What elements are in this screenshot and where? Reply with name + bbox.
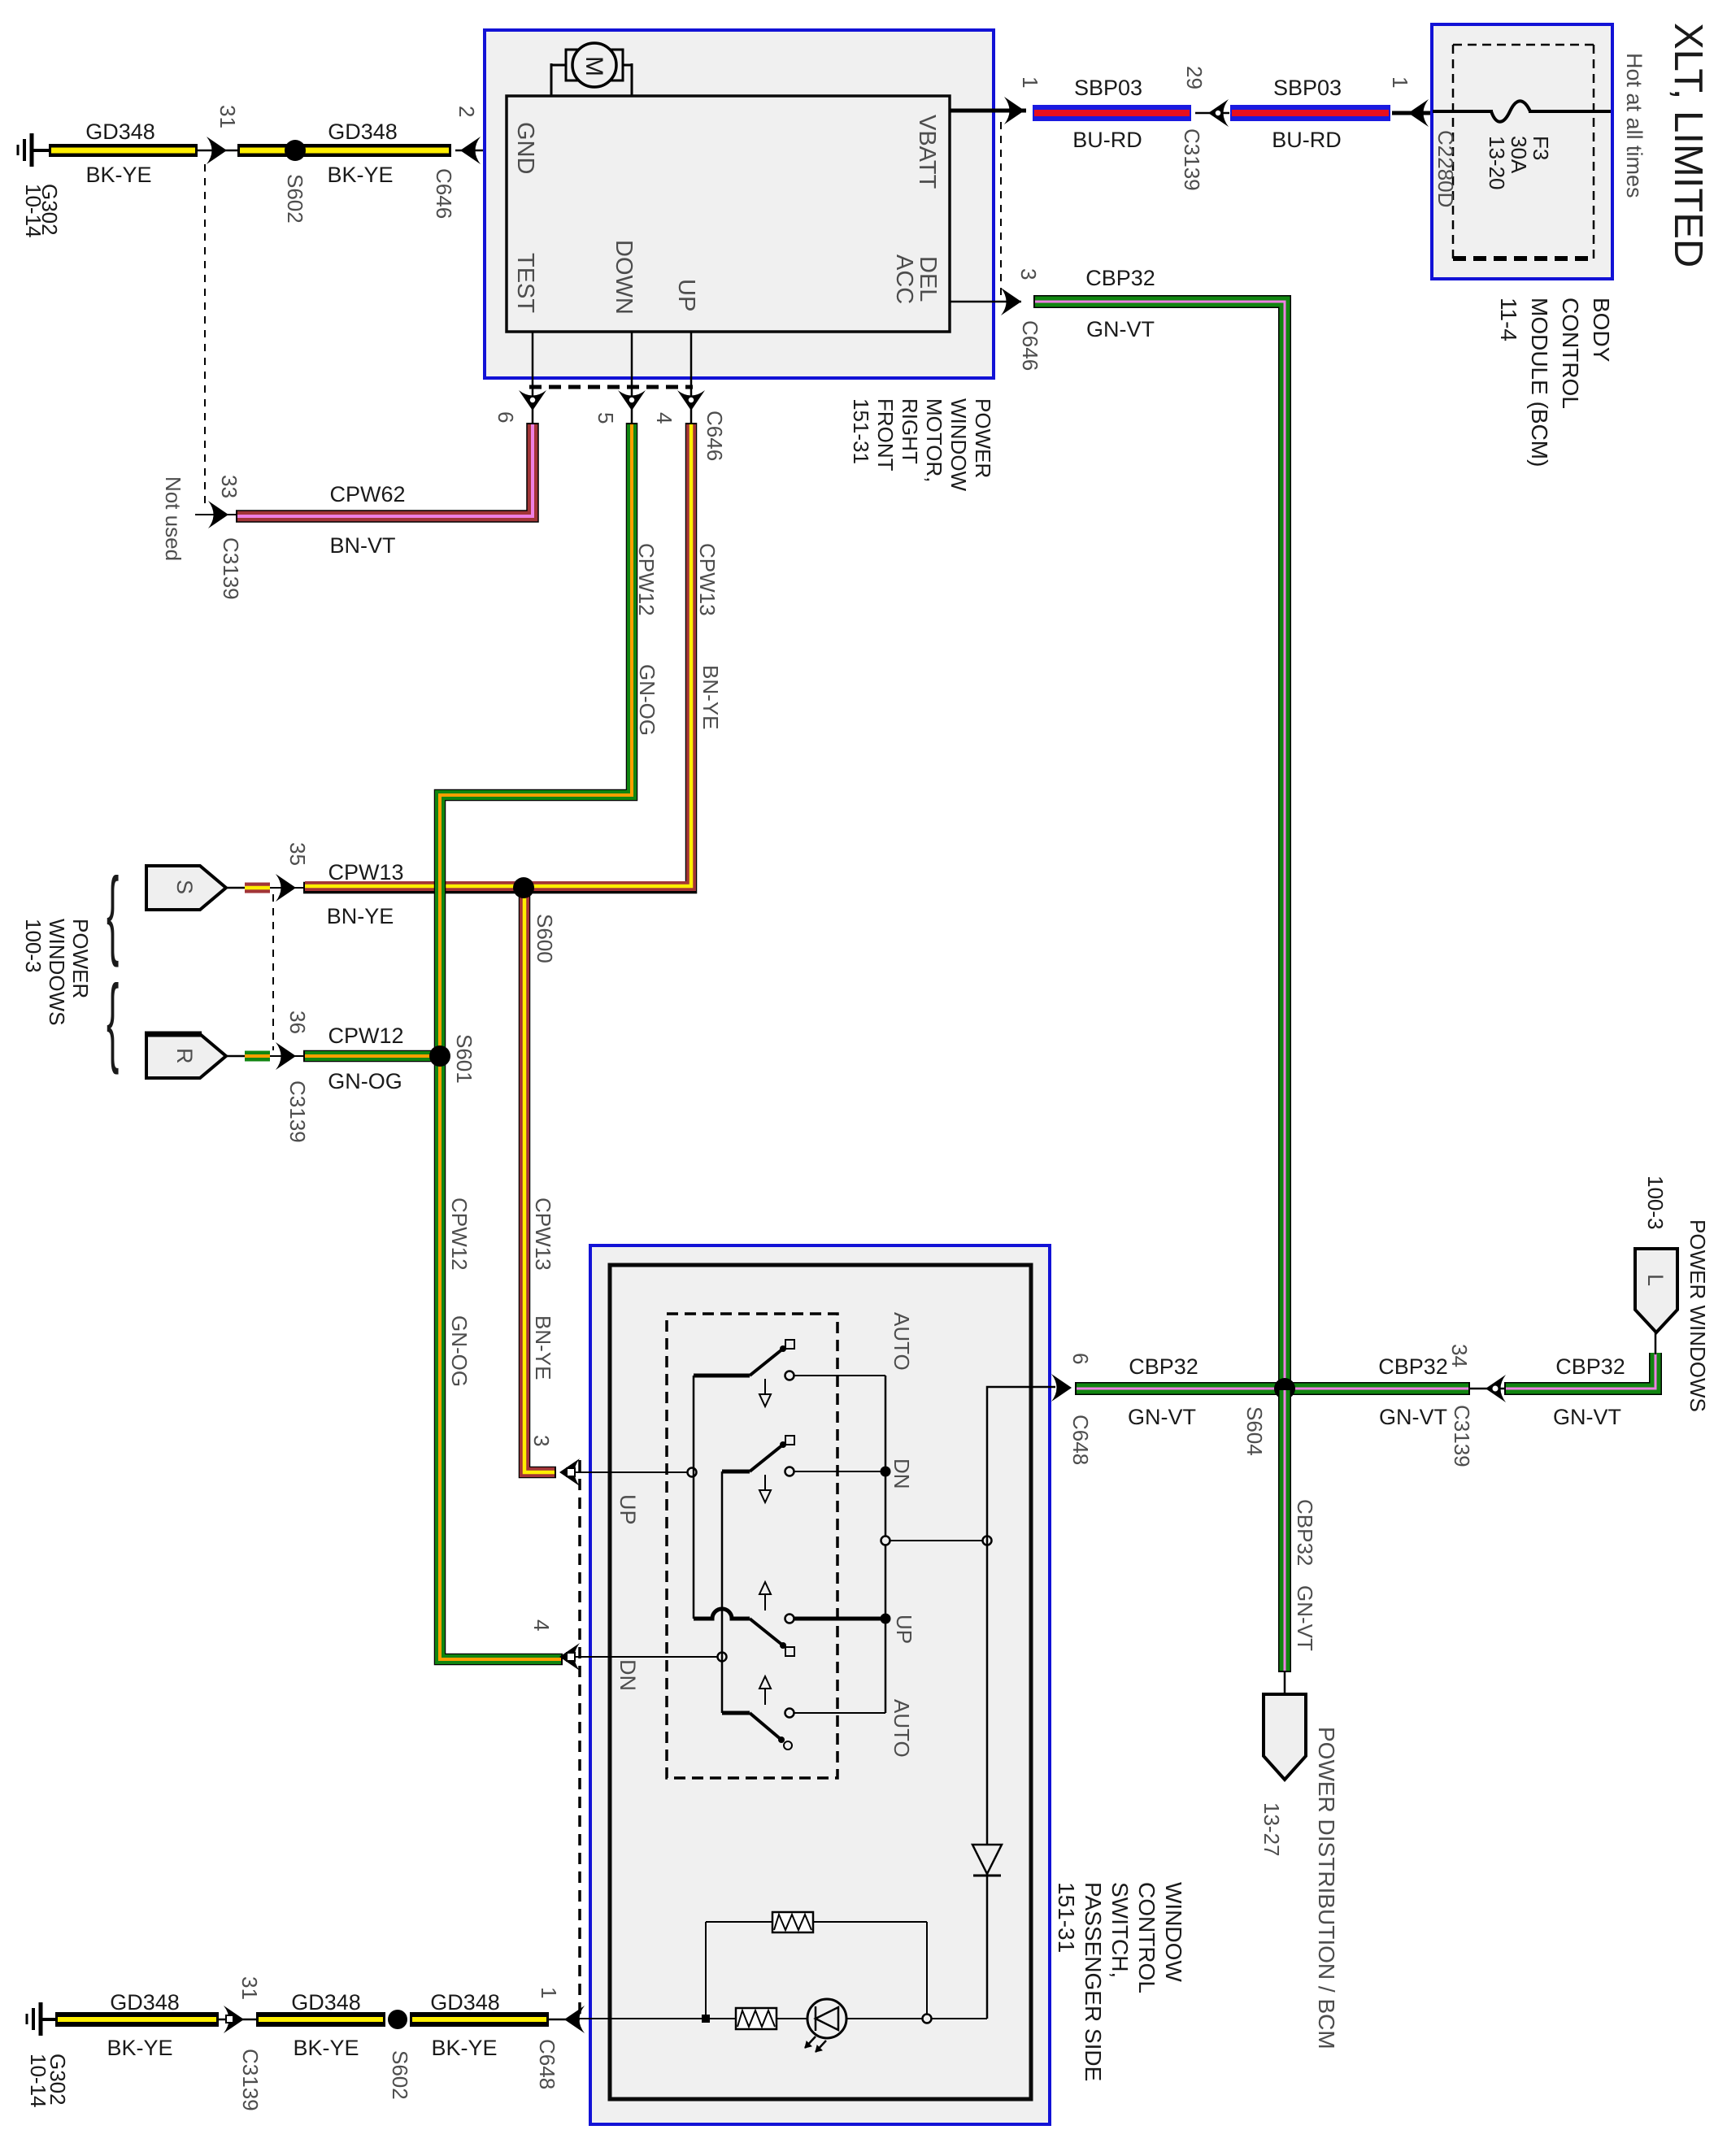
svg-text:MODULE (BCM): MODULE (BCM): [1527, 298, 1552, 467]
connector arrow pin 1 C648: [549, 2006, 585, 2033]
svg-text:MOTOR,: MOTOR,: [922, 398, 946, 483]
lead to power distribution connector: [1284, 1672, 1286, 1696]
label POWER WINDOWS 100-3 (right): [1643, 1176, 1710, 1412]
svg-text:S602: S602: [388, 2050, 412, 2100]
motor M1 symbol: [572, 43, 616, 87]
splice S602 (bottom): [388, 2010, 407, 2029]
svg-text:SBP03: SBP03: [1273, 76, 1342, 100]
svg-text:GN-OG: GN-OG: [328, 1069, 402, 1093]
svg-text:S604: S604: [1242, 1406, 1267, 1456]
svg-text:C3139: C3139: [1180, 128, 1204, 191]
svg-text:GND: GND: [512, 122, 538, 174]
svg-text:C3139: C3139: [1450, 1405, 1474, 1467]
svg-text:10-14: 10-14: [26, 2054, 50, 2108]
svg-text:F3: F3: [1529, 136, 1553, 160]
svg-text:1: 1: [537, 1987, 561, 1998]
switch SW3 UP: [694, 1582, 885, 1656]
svg-text:C646: C646: [1018, 320, 1042, 371]
svg-text:13-20: 13-20: [1485, 136, 1509, 190]
svg-text:BN-YE: BN-YE: [698, 665, 723, 729]
svg-text:CBP32: CBP32: [1085, 266, 1155, 290]
svg-text:WINDOW: WINDOW: [1161, 1882, 1186, 1982]
label BODY CONTROL MODULE (BCM) 11-4: [1496, 298, 1614, 467]
wire mid bus to pin 6 riser: [890, 1540, 983, 1541]
svg-text:SBP03: SBP03: [1074, 76, 1142, 100]
svg-text:{: {: [107, 964, 119, 1075]
switch inner box: [610, 1265, 1031, 2099]
svg-text:CPW13: CPW13: [531, 1198, 555, 1271]
ground G302 (top left): [18, 133, 50, 167]
svg-text:GN-OG: GN-OG: [447, 1315, 472, 1387]
svg-text:33: 33: [217, 475, 241, 498]
svg-text:Hot at all times: Hot at all times: [1622, 53, 1647, 198]
svg-text:1: 1: [1018, 76, 1042, 88]
svg-text:CBP32: CBP32: [1378, 1354, 1448, 1379]
svg-text:11-4: 11-4: [1496, 298, 1521, 341]
ground G302 (bottom left): [27, 2002, 57, 2036]
dashed connector line C646 (right side): [1000, 122, 1002, 302]
svg-text:BN-YE: BN-YE: [327, 904, 394, 928]
off-page connector S: [146, 866, 226, 910]
svg-text:3: 3: [529, 1435, 554, 1446]
svg-text:BK-YE: BK-YE: [293, 2036, 359, 2060]
switch assembly dashed box: [667, 1314, 837, 1778]
svg-text:DN: DN: [890, 1458, 914, 1489]
svg-text:GD348: GD348: [85, 120, 155, 144]
connector arrow pin 31 C3139 (top): [198, 137, 237, 164]
svg-text:10-14: 10-14: [21, 184, 46, 238]
svg-text:31: 31: [215, 105, 240, 128]
label POWER WINDOWS 100-3 (left): [21, 919, 93, 1025]
svg-text:S602: S602: [283, 174, 307, 224]
svg-text:34: 34: [1447, 1344, 1472, 1367]
junction circle on UP bus: [688, 1468, 697, 1477]
dashed connector line (switch left side): [578, 1460, 581, 2019]
svg-text:AUTO: AUTO: [890, 1312, 914, 1371]
wire pin 4 to switch common bus: [575, 1656, 720, 1658]
svg-text:GN-VT: GN-VT: [1293, 1585, 1317, 1651]
switch SW1 AUTO (up): [694, 1340, 885, 1406]
pin lead UP (4): [690, 332, 693, 423]
wire stub BN-YE at S: [245, 883, 270, 893]
svg-text:C3139: C3139: [238, 2049, 263, 2111]
svg-text:CPW13: CPW13: [695, 543, 720, 616]
connector arrow pin 31 C3139 (bottom): [219, 2006, 256, 2033]
connector arrow pin 4 C648 (DN): [559, 1643, 580, 1671]
bus DN common (switch 2 to switch 4): [721, 1471, 724, 1713]
wire GD348 BK-YE segment 1 (bottom): [55, 2012, 219, 2027]
junction dot DN contact: [881, 1467, 891, 1477]
wire lamp branch (pin 1 line): [575, 2018, 987, 2019]
svg-text:6: 6: [1068, 1353, 1093, 1364]
svg-text:100-3: 100-3: [21, 919, 46, 973]
svg-text:POWER: POWER: [971, 398, 995, 478]
connector arrow pin 3 C648 (UP): [559, 1458, 580, 1486]
svg-text:S600: S600: [533, 914, 557, 963]
power window motor right front: outer box: [485, 30, 994, 378]
lead from R: [226, 1055, 246, 1058]
splice S604: [1274, 1378, 1295, 1399]
svg-text:UP: UP: [616, 1494, 640, 1525]
svg-text:CONTROL: CONTROL: [1558, 298, 1583, 409]
junction dot UP contact: [881, 1614, 891, 1624]
wire GD348 BK-YE segment 3 (bottom): [410, 2012, 549, 2027]
splice S600: [513, 877, 534, 898]
svg-text:4: 4: [529, 1619, 554, 1631]
wire hot feed into fuse F3: [1433, 110, 1493, 113]
pin lead DOWN (5): [631, 332, 633, 423]
connector arrow pin 35 C3139: [270, 874, 303, 902]
lead from S: [226, 887, 246, 889]
wire CPW12 GN-OG (R branch to S601): [303, 1050, 443, 1063]
dashed connector line C646 (below motor box): [529, 385, 693, 389]
svg-text:30A: 30A: [1507, 136, 1531, 174]
connector arrow pin 33 C3139: [195, 501, 236, 528]
wire CBP32 GN-VT horizontal (pin 6 to S604 to C3139): [1075, 1382, 1470, 1395]
svg-text:36: 36: [285, 1011, 310, 1034]
wire CBP32 GN-VT from S604 down: [1278, 1389, 1291, 1672]
svg-text:{: {: [107, 857, 119, 967]
svg-text:CPW12: CPW12: [328, 1024, 403, 1048]
svg-text:TEST: TEST: [512, 253, 538, 313]
lead from L connector: [1655, 1332, 1657, 1354]
wire GD348 BK-YE segment 2 (top): [237, 144, 451, 157]
off-page connector L (POWER WINDOWS 100-3): [1635, 1249, 1677, 1332]
svg-text:M: M: [581, 56, 607, 76]
svg-text:BK-YE: BK-YE: [85, 163, 151, 187]
svg-text:VBATT: VBATT: [914, 115, 940, 189]
svg-text:Not used: Not used: [161, 476, 185, 561]
svg-text:5: 5: [594, 412, 618, 424]
wire CPW13 BN-YE (S600 down to switch pin 3): [524, 888, 556, 1472]
svg-text:DEL: DEL: [915, 256, 941, 302]
R connector top edge heavy: [145, 1032, 202, 1037]
label F3 30A 13-20: [1485, 136, 1553, 190]
wire SBP03 BU-RD segment 1: [1033, 105, 1191, 121]
splice S601: [429, 1045, 450, 1067]
label WINDOW CONTROL SWITCH, PASSENGER SIDE 151-31: [1054, 1882, 1186, 2081]
svg-text:CONTROL: CONTROL: [1134, 1882, 1159, 1993]
pin lead TEST (6): [532, 332, 534, 423]
bus right (switch outputs): [885, 1376, 887, 1713]
svg-text:ACC: ACC: [891, 254, 917, 304]
wire CBP32 GN-VT from pin 3 down right side: [1033, 302, 1285, 1389]
svg-text:3: 3: [1016, 268, 1041, 280]
svg-text:BK-YE: BK-YE: [431, 2036, 497, 2060]
dashed connector line C3139 (S/R): [272, 894, 274, 1050]
svg-text:GD348: GD348: [430, 1990, 500, 2015]
svg-text:151-31: 151-31: [1054, 1882, 1079, 1953]
svg-text:29: 29: [1182, 66, 1207, 89]
switch SW2 DN: [722, 1436, 885, 1502]
svg-text:GN-VT: GN-VT: [1379, 1405, 1447, 1429]
resistor R1 (top): [706, 1912, 927, 2015]
svg-text:35: 35: [285, 842, 310, 866]
svg-text:CPW12: CPW12: [447, 1198, 472, 1271]
svg-text:2: 2: [455, 106, 479, 117]
svg-text:GN-VT: GN-VT: [1553, 1405, 1621, 1429]
svg-text:S601: S601: [452, 1034, 476, 1084]
svg-text:CPW12: CPW12: [634, 543, 659, 616]
svg-text:C3139: C3139: [285, 1080, 310, 1143]
svg-text:CBP32: CBP32: [1129, 1354, 1198, 1379]
svg-text:AUTO: AUTO: [890, 1699, 914, 1758]
junction circle lamp branch right: [923, 2015, 932, 2023]
wire CPW13 BN-YE (pin 4 down to horizontal run): [303, 423, 691, 888]
svg-text:31: 31: [237, 1976, 262, 2000]
wire GD348 BK-YE segment 2 (bottom): [256, 2012, 385, 2027]
svg-text:POWER DISTRIBUTION / BCM: POWER DISTRIBUTION / BCM: [1314, 1727, 1339, 2050]
label G302 10-14: [21, 184, 62, 238]
svg-text:BODY: BODY: [1589, 298, 1614, 363]
svg-text:L: L: [1643, 1274, 1668, 1286]
svg-text:1: 1: [1388, 76, 1412, 88]
svg-text:BN-YE: BN-YE: [531, 1315, 555, 1380]
wire CPW62 BN-VT: [236, 423, 533, 516]
svg-text:100-3: 100-3: [1643, 1176, 1668, 1230]
svg-text:BN-VT: BN-VT: [330, 533, 396, 558]
bus UP common (switch 1 to switch 3): [693, 1376, 695, 1619]
svg-text:C2280D: C2280D: [1433, 130, 1458, 207]
svg-text:CBP32: CBP32: [1293, 1499, 1317, 1566]
svg-text:UP: UP: [892, 1615, 916, 1644]
wire VBATT pin to arrow: [950, 109, 1026, 113]
body control module (BCM) box: [1432, 24, 1612, 279]
connector arrow pin 29 C3139: [1195, 99, 1229, 127]
svg-text:C646: C646: [432, 168, 456, 219]
svg-text:CPW13: CPW13: [328, 860, 403, 885]
connector arrow pin 2 C646: [455, 137, 507, 164]
motor M1 housing: [566, 50, 623, 80]
svg-text:4: 4: [652, 412, 676, 424]
svg-text:GD348: GD348: [291, 1990, 361, 2015]
motor inner box: [507, 96, 950, 332]
svg-text:WINDOWS: WINDOWS: [45, 919, 69, 1025]
wire SBP03 BU-RD segment 2: [1230, 105, 1390, 121]
wire CPW12 GN-OG (pin 5 to S601 to pin 4 of switch): [440, 423, 632, 1659]
dashed connector line C3139 (top): [204, 164, 206, 504]
svg-text:BK-YE: BK-YE: [107, 2036, 172, 2060]
svg-text:CBP32: CBP32: [1555, 1354, 1625, 1379]
svg-text:C3139: C3139: [219, 537, 243, 600]
svg-text:WINDOW: WINDOW: [946, 398, 971, 492]
svg-text:GD348: GD348: [328, 120, 398, 144]
LED indicator lamp: [805, 1999, 846, 2052]
svg-text:151-31: 151-31: [849, 398, 873, 464]
svg-text:POWER WINDOWS: POWER WINDOWS: [1686, 1219, 1710, 1412]
svg-text:PASSENGER SIDE: PASSENGER SIDE: [1081, 1882, 1106, 2081]
connector arrow pin 36 C3139: [270, 1042, 303, 1070]
connector arrow pin 6 C646: [519, 390, 546, 411]
svg-text:SWITCH,: SWITCH,: [1107, 1882, 1133, 1978]
off-page connector POWER DISTRIBUTION / BCM: [1264, 1694, 1306, 1780]
svg-text:UP: UP: [673, 279, 699, 311]
switch SW4 AUTO (down): [722, 1676, 885, 1750]
connector arrow pin 1 C646 (VBATT): [1004, 97, 1024, 124]
svg-text:FRONT: FRONT: [873, 398, 898, 472]
svg-text:C648: C648: [1068, 1415, 1093, 1465]
svg-text:XLT, LIMITED: XLT, LIMITED: [1666, 23, 1710, 267]
connector arrow pin 5 C646: [618, 390, 646, 411]
svg-text:RIGHT: RIGHT: [898, 398, 922, 464]
svg-text:R: R: [172, 1048, 197, 1064]
splice S602: [285, 140, 306, 161]
fuse box dashed outline: [1453, 45, 1594, 259]
off-page connector R: [146, 1034, 226, 1078]
svg-text:GD348: GD348: [110, 1990, 180, 2015]
svg-text:GN-VT: GN-VT: [1086, 317, 1155, 341]
svg-text:C648: C648: [535, 2039, 559, 2089]
svg-text:13-27: 13-27: [1259, 1802, 1284, 1857]
connector arrow pin 34 C3139: [1468, 1375, 1506, 1402]
svg-text:C646: C646: [703, 411, 727, 461]
window control switch passenger side: outer box: [590, 1245, 1050, 2124]
svg-text:BU-RD: BU-RD: [1072, 128, 1142, 152]
svg-text:GN-VT: GN-VT: [1128, 1405, 1196, 1429]
connector arrow pin 3 C646: [1001, 288, 1021, 315]
connector arrow pin 1 C2280D: [1392, 99, 1433, 127]
junction circle mid bus: [881, 1537, 890, 1545]
wire GD348 BK-YE segment 1 (top left): [49, 144, 198, 157]
diode D1: [972, 1845, 1002, 1876]
svg-text:GN-OG: GN-OG: [635, 664, 659, 736]
wire stub GN-OG at R: [245, 1051, 270, 1062]
svg-text:DN: DN: [616, 1659, 640, 1691]
wire DEL ACC pin to arrow: [950, 301, 1021, 303]
junction square lamp branch: [702, 2015, 710, 2023]
svg-text:S: S: [172, 880, 197, 894]
wire pin 3 to switch common bus: [575, 1471, 689, 1473]
wire CBP32 GN-VT from C3139 to L connector: [1504, 1353, 1655, 1389]
motor M1 leads: [551, 63, 632, 96]
svg-text:BK-YE: BK-YE: [327, 163, 393, 187]
label G302 10-14 (bottom): [26, 2054, 70, 2108]
connector arrow pin 4 C646: [677, 390, 705, 411]
fuse F3 element: [1491, 101, 1530, 122]
wire riser pin 6 / diode branch: [987, 1387, 1055, 2019]
connector arrow pin 6 C648: [1051, 1374, 1072, 1402]
svg-text:POWER: POWER: [68, 919, 93, 998]
svg-text:DOWN: DOWN: [611, 240, 637, 315]
junction circle on DN bus: [718, 1653, 727, 1662]
svg-text:CPW62: CPW62: [329, 482, 405, 506]
svg-text:BU-RD: BU-RD: [1272, 128, 1342, 152]
resistor R2 (lamp series): [736, 2008, 776, 2029]
junction circle riser: [983, 1537, 992, 1545]
wire fuse to box edge: [1529, 110, 1611, 113]
svg-text:6: 6: [494, 411, 518, 423]
label POWER WINDOW MOTOR, RIGHT FRONT 151-31: [849, 398, 995, 492]
